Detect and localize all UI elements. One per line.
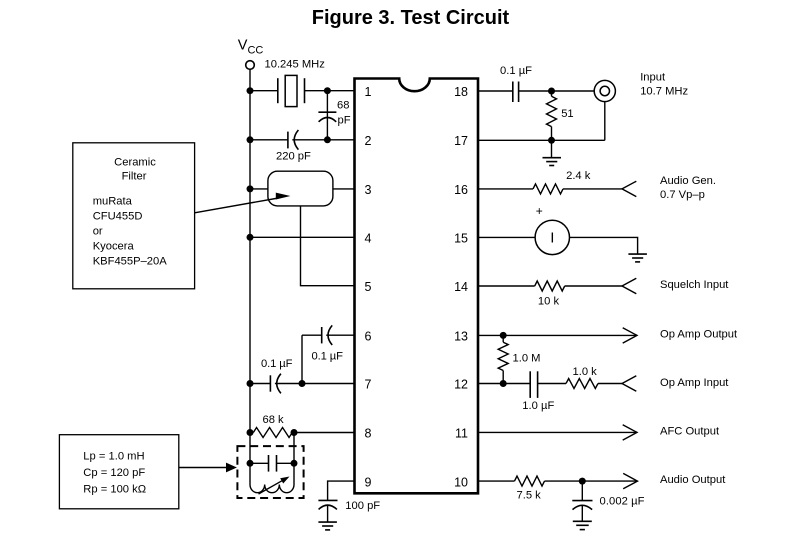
- svg-text:0.1 µF: 0.1 µF: [261, 358, 293, 370]
- svg-text:220 pF: 220 pF: [276, 151, 311, 163]
- current source I1: [535, 220, 569, 254]
- capacitor 0.1uF pin 6: [302, 325, 355, 345]
- wire pin4: [250, 236, 355, 238]
- node pin6cap/pin7 junction: [299, 380, 306, 387]
- svg-text:Audio Gen.: Audio Gen.: [660, 175, 716, 187]
- svg-text:1.0 µF: 1.0 µF: [522, 400, 554, 412]
- svg-text:AFC Output: AFC Output: [660, 425, 720, 437]
- wire pin9 lead: [328, 481, 355, 500]
- svg-text:12: 12: [454, 378, 468, 392]
- capacitor 100 pF: [318, 500, 337, 521]
- callout arrow to tank: [179, 463, 237, 473]
- svg-text:VCC: VCC: [238, 37, 264, 56]
- ground pin9: [318, 522, 337, 530]
- node tank cap left junction: [247, 460, 254, 467]
- wire 220pF to pin 2: [292, 139, 354, 141]
- node 51/pin17 junction: [548, 137, 555, 144]
- svg-text:1.0 M: 1.0 M: [513, 352, 541, 364]
- wire pin12 lead: [478, 383, 530, 385]
- svg-text:CFU455D: CFU455D: [93, 211, 143, 223]
- svg-text:pF: pF: [338, 115, 351, 127]
- node Vcc/pin2 junction: [247, 136, 254, 143]
- wire pin11: [478, 431, 637, 433]
- capacitor Cp in tank: [250, 455, 294, 472]
- svg-text:0.1 µF: 0.1 µF: [312, 350, 344, 362]
- wire 7.5k to audio output arrow: [545, 480, 638, 482]
- svg-text:8: 8: [365, 427, 372, 441]
- svg-text:Lp = 1.0 mH: Lp = 1.0 mH: [83, 450, 144, 462]
- inductor Lp coil: [250, 485, 294, 493]
- node tank cap right junction: [291, 460, 298, 467]
- node Vcc/pin3 junction: [247, 185, 254, 192]
- wire cap to input terminal: [519, 90, 595, 92]
- wire pin6 cap to pin7: [301, 335, 303, 383]
- capacitor 1.0 uF: [530, 371, 537, 398]
- wire 2.4k to audio gen arrow: [563, 188, 622, 190]
- svg-text:9: 9: [365, 475, 372, 489]
- svg-text:10.245 MHz: 10.245 MHz: [265, 59, 326, 71]
- ground 51: [543, 140, 562, 165]
- svg-text:4: 4: [365, 232, 372, 246]
- capacitor 68 pF: [318, 91, 336, 140]
- arrow audio output: [623, 473, 637, 488]
- wire filter to pin 3: [333, 188, 355, 190]
- resistor 10 k: [535, 281, 565, 291]
- node pin18/51 junction: [548, 88, 555, 95]
- wire pin2 left lead: [250, 139, 288, 141]
- svg-text:10: 10: [454, 475, 468, 489]
- arrow AFC output: [623, 425, 637, 440]
- wire input terminal down to pin17: [604, 102, 606, 141]
- svg-text:Input: Input: [640, 72, 666, 84]
- wire pin18 lead: [478, 90, 513, 92]
- wire crystal to pin 1: [305, 90, 355, 92]
- svg-text:muRata: muRata: [93, 196, 133, 208]
- node Vcc/pin7 junction: [247, 380, 254, 387]
- wire filter bottom to pin 5: [301, 206, 355, 286]
- ceramic filter callout box: [73, 143, 195, 289]
- svg-text:Cp = 120 pF: Cp = 120 pF: [83, 467, 145, 479]
- svg-text:0.1 µF: 0.1 µF: [500, 65, 532, 77]
- svg-text:11: 11: [455, 427, 468, 441]
- node 68k/tank junction: [291, 429, 298, 436]
- wire 1.0k to op amp input arrow: [598, 383, 622, 385]
- wire Vcc rail: [249, 69, 251, 484]
- label Audio Gen. 0.7 Vp-p: [660, 175, 716, 201]
- wire pin17: [478, 139, 605, 141]
- svg-text:Squelch Input: Squelch Input: [660, 279, 729, 291]
- svg-text:0.7 Vp–p: 0.7 Vp–p: [660, 189, 705, 201]
- svg-text:Ceramic: Ceramic: [114, 156, 156, 168]
- wire pin16 lead: [478, 188, 533, 190]
- callout arrow to filter: [195, 193, 291, 213]
- wire cap to 1.0k: [538, 383, 566, 385]
- node pin13/1.0M junction: [500, 332, 507, 339]
- input terminal J1: [594, 80, 615, 101]
- svg-text:15: 15: [454, 232, 468, 246]
- svg-text:Audio Output: Audio Output: [660, 474, 726, 486]
- svg-text:18: 18: [454, 85, 468, 99]
- wire current source to ground: [570, 237, 638, 253]
- capacitor 0.002 uF: [572, 481, 592, 521]
- svg-text:68: 68: [337, 100, 349, 112]
- resistor 1.0 M: [498, 335, 508, 383]
- svg-text:16: 16: [454, 183, 468, 197]
- quad coil tank dashed box: [237, 446, 303, 498]
- svg-text:68 k: 68 k: [263, 414, 285, 426]
- label Input 10.7 MHz: [640, 72, 688, 98]
- resistor 51: [547, 91, 557, 140]
- resistor 7.5 k: [515, 476, 545, 486]
- svg-text:13: 13: [454, 329, 468, 343]
- ceramic filter FL1 body: [268, 171, 333, 206]
- Lp Cp Rp callout box: [59, 435, 178, 509]
- svg-text:14: 14: [454, 280, 468, 294]
- resistor 1.0 k: [566, 379, 598, 389]
- svg-text:1.0 k: 1.0 k: [573, 366, 598, 378]
- svg-text:2.4 k: 2.4 k: [566, 170, 591, 182]
- wire pin13: [478, 334, 637, 336]
- svg-text:Figure 3. Test Circuit: Figure 3. Test Circuit: [312, 7, 510, 29]
- svg-text:Op Amp Input: Op Amp Input: [660, 377, 729, 389]
- svg-text:Kyocera: Kyocera: [93, 241, 135, 253]
- resistor 68 k: [250, 428, 355, 438]
- Vcc terminal: [246, 61, 255, 70]
- wire pin14 lead: [478, 285, 535, 287]
- node rail/68k junction: [247, 429, 254, 436]
- svg-text:10 k: 10 k: [538, 296, 560, 308]
- svg-text:KBF455P–20A: KBF455P–20A: [93, 256, 168, 268]
- svg-text:100 pF: 100 pF: [345, 500, 380, 512]
- node crystal/pin1 junction: [324, 87, 331, 94]
- svg-text:17: 17: [454, 134, 468, 148]
- wire pin3 left lead: [250, 188, 268, 190]
- arrow op amp output: [623, 328, 637, 343]
- wire pin1 left lead: [250, 90, 278, 92]
- svg-text:10.7 MHz: 10.7 MHz: [640, 86, 688, 98]
- svg-text:Rp = 100 kΩ: Rp = 100 kΩ: [83, 483, 146, 495]
- wire pin10 lead: [478, 480, 515, 482]
- capacitor 0.1uF pin 7: [250, 374, 355, 394]
- svg-text:Filter: Filter: [122, 171, 147, 183]
- node Vcc/pin4 junction: [247, 234, 254, 241]
- wire pin15 lead: [478, 236, 535, 238]
- arrow audio gen input: [622, 181, 636, 196]
- arrow op amp input: [622, 376, 636, 391]
- capacitor 0.1 uF pin18: [513, 82, 519, 103]
- svg-text:7: 7: [365, 378, 372, 392]
- op-amp IC U1 18-pin DIP body: [355, 79, 479, 494]
- crystal Y1 10.245 MHz: [278, 75, 305, 106]
- node 68pF/pin2 junction: [324, 136, 331, 143]
- svg-text:5: 5: [365, 280, 372, 294]
- wire tank right vertical: [293, 433, 295, 485]
- svg-text:3: 3: [365, 183, 372, 197]
- svg-text:or: or: [93, 226, 103, 238]
- svg-text:51: 51: [561, 108, 573, 120]
- svg-text:+: +: [536, 204, 543, 218]
- svg-text:Op Amp Output: Op Amp Output: [660, 328, 738, 340]
- ground current source: [628, 254, 647, 262]
- capacitor 220 pF: [288, 130, 299, 150]
- ground 0.002uF: [573, 521, 592, 529]
- node pin12/1.0M junction: [500, 380, 507, 387]
- svg-text:I: I: [550, 230, 554, 247]
- node pin10/cap junction: [579, 478, 586, 485]
- svg-text:7.5 k: 7.5 k: [517, 490, 542, 502]
- svg-text:2: 2: [365, 134, 372, 148]
- arrow squelch input: [622, 278, 636, 293]
- node Vcc/pin1 junction: [247, 87, 254, 94]
- svg-text:0.002 µF: 0.002 µF: [600, 496, 645, 508]
- wire 10k to squelch arrow: [565, 285, 622, 287]
- variable arrow through coil: [259, 477, 290, 495]
- svg-text:1: 1: [365, 85, 372, 99]
- svg-text:6: 6: [365, 329, 372, 343]
- resistor 2.4 k: [533, 184, 563, 194]
